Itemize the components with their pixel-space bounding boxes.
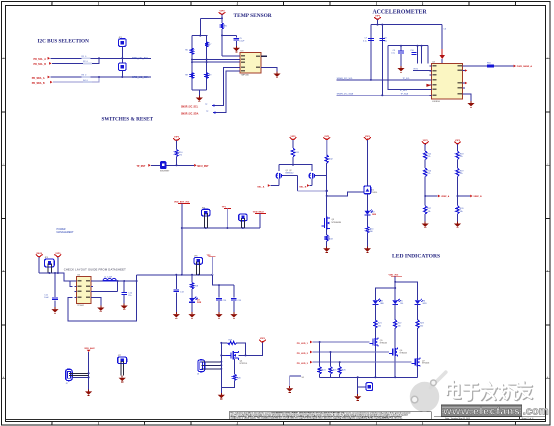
wire col3 stub (366, 140, 368, 186)
wire LED branch right (395, 282, 417, 300)
svg-text:0.1u: 0.1u (363, 40, 367, 42)
ground C14 (215, 312, 222, 318)
wire R10 to node (176, 157, 178, 166)
net label VDD LED (389, 274, 403, 276)
svg-text:47k: 47k (460, 156, 463, 158)
capacitor C8 (380, 39, 386, 41)
net label VDD_MCU (253, 212, 266, 214)
svg-text:VREF_B: VREF_B (473, 196, 482, 198)
wire to ground temp (198, 90, 200, 95)
svg-text:BSS84x2: BSS84x2 (286, 173, 294, 175)
svg-text:PD_LED_3: PD_LED_3 (297, 363, 309, 365)
wire JP5 pin a (47, 264, 49, 274)
wire TP2 stub (211, 257, 213, 275)
net label VDD_EXT (174, 202, 190, 204)
wire mid bus (182, 227, 260, 229)
wire divider 2 mid2 (457, 177, 459, 206)
svg-text:33k: 33k (428, 211, 431, 213)
wire Q3 source down (326, 230, 328, 236)
wire accel inner bus (388, 45, 428, 47)
resistor R6 (185, 48, 193, 55)
wire LED2 gate row (313, 351, 390, 353)
svg-text:BRD_I2C_SCL: BRD_I2C_SCL (132, 57, 149, 60)
capacitor C11 (52, 298, 58, 300)
wire C15 to ground (233, 301, 235, 312)
capacitor C8 label (384, 37, 387, 42)
jumper JP1 (119, 37, 127, 47)
wire divider 1 top (424, 144, 426, 151)
net label PD_SCL_A (34, 57, 51, 61)
ground D2 (364, 246, 371, 252)
ground C5 (233, 46, 240, 52)
wire R24 bottom (319, 374, 321, 377)
wire LED vdd drop (394, 276, 396, 299)
transistor Q1 PFET (276, 173, 283, 178)
wire J3 pin2 (202, 364, 222, 366)
resistor R17 (424, 206, 432, 214)
svg-text:22u: 22u (128, 295, 131, 297)
resistor R18 (456, 151, 464, 160)
resistor R18 (190, 283, 198, 290)
watermark chinese characters shadow (448, 382, 532, 401)
resistor R-i2c1 label (82, 56, 91, 59)
wire into IC top (441, 59, 443, 64)
svg-text:330: 330 (398, 325, 401, 327)
svg-text:LIS3DH: LIS3DH (432, 101, 440, 103)
wire divider 1 tap (425, 195, 438, 197)
wire C5 to ground (235, 41, 237, 46)
svg-text:SNSR_I2C_SCL: SNSR_I2C_SCL (181, 106, 199, 108)
net label accel SCL mid (403, 78, 434, 81)
testpoint TP1 (222, 207, 231, 209)
diode box D1 (364, 186, 377, 194)
ferrite bead FB1 (487, 62, 494, 67)
jumper JP3 (202, 207, 210, 216)
testpoint TP2 (207, 255, 216, 257)
ground divider 1 (422, 222, 429, 228)
wire PM flag2 drop (57, 257, 59, 273)
power flag col2 (323, 136, 330, 141)
ground U4 (467, 101, 474, 107)
wire col2 down (326, 163, 328, 216)
net label PD_SDA_B (32, 81, 53, 85)
net label Q2 gate (299, 184, 312, 189)
svg-text:GRN: GRN (422, 303, 427, 305)
resistor R25 (329, 367, 337, 374)
wire SCL row1 (50, 57, 151, 59)
svg-text:NTR4003: NTR4003 (422, 363, 429, 365)
svg-text:SW-RESET: SW-RESET (160, 171, 170, 173)
net label inner row TP (400, 88, 434, 92)
wire SDA row2 (53, 77, 99, 82)
wire node to dbox (327, 192, 365, 196)
resistor R-i2c3 label (82, 75, 91, 78)
wire alert stub (261, 55, 267, 57)
red pin marker r1 (465, 69, 467, 72)
transistor Q4 (226, 351, 239, 360)
net label SNSR SDA bottom (181, 111, 215, 115)
svg-text:SWITCHES & RESET: SWITCHES & RESET (102, 117, 154, 123)
wire Q5 drain (374, 328, 376, 338)
svg-text:MANAGEMENT: MANAGEMENT (57, 231, 75, 234)
svg-text:NTR4003: NTR4003 (400, 353, 407, 355)
border zone ticks right (546, 59, 550, 378)
resistor R14 (366, 227, 374, 234)
wire divider 2 top (457, 144, 459, 151)
wire Q2 out stub (316, 175, 327, 177)
wire JP1 to SCL (121, 46, 123, 63)
wire inner drop a (417, 46, 419, 64)
resistor R8 (185, 73, 193, 79)
connector J2 (66, 369, 73, 385)
svg-text:CHECK LAYOUT GUIDE FROM DATASH: CHECK LAYOUT GUIDE FROM DATASHEET (64, 268, 126, 272)
ground temp divider (196, 96, 203, 102)
wire IC pin row 1 (192, 59, 241, 61)
wire JP4 pin a (240, 218, 242, 228)
wire Q4 gate lead (221, 354, 226, 356)
wire accel vdd branch right (441, 25, 443, 49)
wire J2 row3 (72, 376, 88, 378)
LED D5 (392, 299, 403, 305)
ground C12 (121, 304, 128, 310)
ground D3 (188, 312, 195, 318)
red pin marker r2 (465, 82, 467, 85)
wire R5 to node (221, 29, 223, 56)
power flag divider 2 (454, 140, 461, 145)
wire pfet out bus (298, 190, 327, 192)
svg-text:Q1 Q2: Q1 Q2 (286, 170, 292, 172)
transistor Q3 NFET (322, 217, 335, 230)
LED D2 (365, 209, 376, 215)
LED D6 (415, 299, 426, 305)
wire Q4 bypass top (221, 342, 227, 344)
net label VDD aux (84, 347, 95, 352)
power flag col1 (290, 136, 297, 141)
ground LED bus (354, 394, 361, 400)
junction node SDA (98, 76, 100, 78)
power flag PM2 (55, 253, 62, 258)
wire accel SDA in (337, 94, 432, 96)
svg-text:PD_SCL_A: PD_SCL_A (34, 58, 47, 61)
ground stub left (290, 376, 305, 386)
wire JP4 pin b (243, 218, 245, 228)
wire Q7 drain (417, 328, 419, 358)
transistor Q2 PFET (309, 173, 316, 178)
net label accel SDA mid (401, 92, 434, 96)
capacitor C12 (121, 293, 127, 295)
svg-text:10u: 10u (384, 40, 387, 42)
svg-text:Date: Tuesday, May 08, 2013: Date: Tuesday, May 08, 2013 (445, 417, 470, 420)
wire cap C9 stub (400, 46, 402, 51)
wire accel int1 (413, 70, 432, 72)
wire to ground Q4 (220, 388, 222, 393)
wire Q2 gate drop (311, 178, 313, 185)
svg-text:C10: C10 (410, 50, 413, 52)
wire node to IC pin1 (222, 55, 240, 57)
wire inner drop c (427, 46, 429, 64)
capacitor C13 (174, 290, 180, 292)
wire divider 1 mid1 (424, 160, 426, 169)
svg-text:330: 330 (378, 325, 381, 327)
wire divider 1 mid2 (424, 177, 426, 206)
regulator U5 (75, 275, 94, 307)
svg-text:330: 330 (420, 325, 423, 327)
ground C9 (397, 66, 404, 72)
power flag VDD accel (374, 16, 381, 21)
capacitor C7 label (363, 37, 368, 42)
svg-text:0.1u: 0.1u (391, 53, 395, 55)
net label TP_RST left (137, 164, 151, 168)
wire D4 cathode (374, 304, 376, 320)
wire C13 to ground (175, 293, 177, 313)
wire U5 pin2 stub (70, 281, 73, 286)
temp sensor U3 (238, 50, 263, 76)
resistor R23 (416, 320, 425, 328)
wire D5 anode (394, 297, 396, 300)
inductor L1 (103, 276, 116, 281)
wire C14 to ground (218, 301, 220, 312)
wire U3 right to ground (261, 68, 277, 72)
resistor R-i2c2 label (83, 61, 92, 64)
svg-text:PD_LED_1: PD_LED_1 (297, 343, 309, 345)
watermark www box (441, 405, 548, 418)
wire PM input bus (39, 273, 77, 281)
wire feedback loop (68, 281, 137, 321)
wire D6 anode (417, 297, 419, 300)
ground Q4 (218, 393, 225, 399)
svg-text:.com: .com (523, 406, 549, 418)
LED D4 (373, 299, 384, 305)
svg-text:TEMP SENSOR: TEMP SENSOR (234, 13, 272, 19)
wire divider 2 bottom (457, 214, 459, 222)
wire Q1 out stub (283, 175, 298, 177)
wire U5 gnd pin (91, 297, 101, 305)
wire accel left column 2 (381, 25, 383, 96)
resistor R11 (291, 148, 299, 157)
wire inner bus left drop (388, 46, 431, 90)
power flag VDD sw (173, 137, 180, 142)
svg-text:330: 330 (370, 231, 373, 233)
wire R26 bottom (339, 374, 341, 377)
svg-text:PD_LED_2: PD_LED_2 (297, 353, 309, 355)
svg-text:SNSR_I2C_SCL: SNSR_I2C_SCL (337, 78, 354, 80)
svg-text:ACCELEROMETER: ACCELEROMETER (373, 9, 428, 15)
wire Q1 gate drop (278, 178, 280, 185)
wire JP5 pin b (51, 264, 53, 274)
power flag PM1 (36, 253, 43, 258)
wire divider 2 mid1 (457, 160, 459, 169)
resistor R20 (233, 374, 242, 380)
svg-text:47k: 47k (428, 173, 431, 175)
wire R18 to LED (191, 289, 193, 297)
wire SDA row1 (50, 76, 151, 78)
resistor R26 (338, 367, 346, 374)
wire cap C5 stub (235, 35, 237, 37)
wire U5 sw out (91, 280, 103, 282)
resistor R13 (325, 235, 333, 241)
wire JP6 pin a (196, 261, 198, 274)
wire pfet2 src (311, 165, 313, 171)
wire JP6 pin b (199, 261, 201, 274)
resistor R5 (220, 23, 227, 29)
net label VDD_SNSR (514, 65, 533, 68)
wire JP2 to SDA (121, 71, 123, 78)
svg-text:MCU_RST: MCU_RST (197, 166, 209, 168)
svg-text:PD_SDA_A: PD_SDA_A (32, 77, 45, 80)
label Q4 (240, 360, 248, 364)
resistor R20 (456, 206, 464, 214)
wire bus to ground drop (357, 377, 359, 394)
input row LED1 (297, 341, 313, 345)
wire TP1 stub (226, 209, 228, 228)
power flag VDD temp (219, 11, 226, 16)
wire D5 cathode (394, 304, 396, 320)
wire left drop to divider (199, 18, 201, 35)
net label Q1 gate (257, 184, 279, 189)
connector J3 (197, 360, 205, 376)
wire C12 branch (123, 281, 125, 292)
svg-text:VREF_A: VREF_A (441, 195, 450, 198)
wire C11 branch (54, 273, 56, 297)
svg-text:SNSR_I2C_SDA: SNSR_I2C_SDA (181, 112, 199, 115)
net label divider 1 (438, 195, 450, 198)
capacitor C12 label (128, 292, 133, 297)
wire IC pin row 2 (192, 61, 241, 63)
wire J2 pin2 (69, 374, 89, 376)
resistor R19 (228, 340, 237, 345)
jumper JP6 (194, 255, 202, 264)
wire vdd ext drop (181, 204, 183, 275)
wire U4 gnd right (463, 94, 471, 101)
resistor R10 (175, 150, 183, 157)
jumper JP4 (239, 214, 247, 221)
wire C13 branch (175, 275, 177, 289)
switch S2 (160, 162, 170, 173)
resistor R-i2c4 label (83, 80, 92, 83)
net label PD_SDA_A (32, 76, 50, 80)
wire Q4 vdd drop (239, 342, 263, 355)
svg-text:NTR4003N: NTR4003N (332, 222, 342, 224)
svg-text:PWR_SNSR_A: PWR_SNSR_A (517, 65, 533, 68)
wire col1 to bus (292, 157, 294, 165)
ground Q3 (323, 246, 330, 252)
wire SCL row2 (52, 58, 99, 63)
wire left column top (191, 36, 193, 91)
svg-text:www.elecfans: www.elecfans (442, 406, 520, 417)
svg-text:PWR: PWR (197, 302, 202, 304)
wire col1 stub (292, 140, 294, 148)
wire PM right branch (212, 275, 234, 285)
ground aux (85, 389, 92, 395)
wire bottom join (192, 89, 207, 91)
resistor R12 (325, 155, 333, 163)
wire R18 branch (191, 275, 193, 283)
capacitor C14 (216, 298, 222, 300)
wire VDD_MCU drop (259, 214, 261, 228)
title block disclaimer box (229, 412, 431, 420)
LED D3 (189, 297, 198, 303)
wire pfet1 src (278, 165, 280, 171)
capacitor C9 label (391, 50, 396, 55)
svg-text:NTR2101: NTR2101 (240, 363, 248, 365)
wire J3 pin3 (202, 368, 222, 370)
inductor L1 bar (103, 280, 116, 282)
svg-text:TP_INT2: TP_INT2 (400, 90, 408, 92)
wire D6 cathode (417, 304, 419, 320)
wire R20 seg (234, 370, 236, 374)
wire accel top bus (371, 24, 442, 26)
wire R25 bottom (330, 374, 332, 377)
wire R24 riser (319, 342, 321, 367)
capacitor C7 (368, 39, 374, 41)
ground U5 (97, 306, 104, 312)
power arrow into U4 left pin (426, 84, 431, 87)
wire U5 fb tap (91, 290, 118, 292)
wire Q7 source (417, 366, 419, 377)
wire bypass left (220, 343, 222, 388)
svg-text:BRD_I2C_SDA: BRD_I2C_SDA (132, 76, 149, 79)
svg-text:47k: 47k (179, 155, 182, 157)
svg-text:NTR4003: NTR4003 (380, 343, 387, 345)
wire sw vdd stub (176, 141, 178, 150)
ground C11 (51, 307, 58, 313)
title block right row line (434, 416, 546, 418)
jumper JP7 (118, 355, 127, 364)
title block divider 2 (519, 417, 521, 420)
wire Q5 source (374, 346, 376, 377)
wire JP7 pin a (120, 361, 122, 376)
svg-text:PD_SDA_B: PD_SDA_B (32, 82, 45, 85)
wire Q1 out drop (297, 176, 299, 191)
svg-text:components or circuit boards.: components or circuit boards. This evalu… (230, 417, 402, 420)
wire Q6 drain (394, 328, 396, 348)
wire J2 pin1 (69, 372, 89, 374)
power flag divider 1 (422, 140, 429, 145)
svg-text:I2C BUS SELECTION: I2C BUS SELECTION (38, 38, 90, 44)
wire temp divider bus (192, 35, 207, 37)
jumper JP2 (119, 63, 127, 71)
watermark chinese characters body (447, 381, 531, 400)
ground C13 (173, 312, 180, 318)
svg-text:SNSR_I2C_SDA: SNSR_I2C_SDA (337, 92, 354, 95)
svg-text:PD_SCL_B: PD_SCL_B (34, 63, 47, 66)
wire LED1 gate row (313, 341, 370, 343)
net label divider 2 (470, 195, 482, 198)
wire D4 anode (374, 297, 376, 300)
net label RST right (194, 164, 209, 168)
svg-text:47k: 47k (460, 173, 463, 175)
resistor R7 (205, 42, 212, 47)
svg-text:CUS10: CUS10 (371, 192, 377, 194)
svg-text:LED INDICATORS: LED INDICATORS (392, 253, 440, 259)
wire L1 to out (116, 275, 136, 281)
border zone ticks bottom (52, 422, 516, 426)
wire temp cap tap (222, 34, 236, 36)
resistor R9 (205, 73, 212, 79)
capacitor C15 (231, 298, 237, 300)
resistor R19 (456, 168, 464, 177)
power flag col3 (364, 136, 371, 141)
wire R13 to ground (326, 241, 328, 246)
ground U3 (273, 72, 280, 78)
wire SDA riser (213, 71, 240, 113)
svg-text:L1 2.2uH: L1 2.2uH (104, 276, 113, 278)
svg-text:33k: 33k (460, 211, 463, 213)
border zone ticks left (2, 59, 6, 378)
junction node SCL (98, 57, 100, 59)
resistor R15 (424, 151, 432, 160)
border zone ticks top (52, 2, 516, 6)
